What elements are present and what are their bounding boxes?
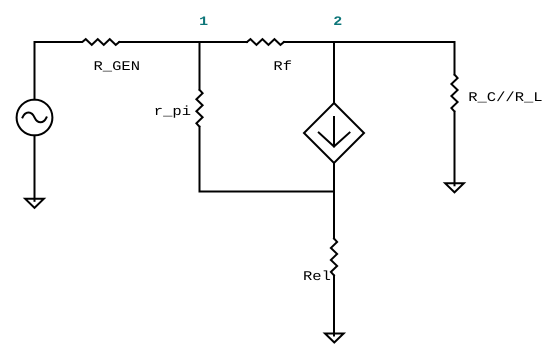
wire xyxy=(34,42,36,100)
ground bottom xyxy=(325,334,344,343)
source V1 sine xyxy=(23,113,47,123)
wire node 1 drop xyxy=(199,42,201,90)
resistor R_GEN xyxy=(35,39,120,45)
svg-text:1: 1 xyxy=(199,15,208,30)
resistor Rel xyxy=(331,239,337,276)
wire xyxy=(200,127,335,192)
svg-text:Rf: Rf xyxy=(273,59,292,74)
svg-text:r_pi: r_pi xyxy=(154,104,191,119)
wire xyxy=(333,163,335,239)
wire node 2 drop xyxy=(333,42,335,103)
ground right xyxy=(445,183,464,192)
resistor r_pi xyxy=(196,90,202,127)
current source G1 diamond xyxy=(304,103,364,163)
source V1 circle xyxy=(17,100,53,136)
svg-text:R_GEN: R_GEN xyxy=(94,59,141,74)
ground left xyxy=(25,199,44,208)
svg-text:Rel: Rel xyxy=(303,269,331,284)
wire xyxy=(333,275,335,335)
current source arrow xyxy=(319,117,350,147)
resistor Rf xyxy=(247,39,284,45)
wire xyxy=(454,112,456,186)
wire xyxy=(34,135,36,200)
svg-text:2: 2 xyxy=(333,14,342,29)
svg-text:R_C//R_L: R_C//R_L xyxy=(468,90,542,105)
wire xyxy=(284,42,455,75)
resistor R_C//R_L xyxy=(451,75,457,112)
wire xyxy=(119,41,247,43)
